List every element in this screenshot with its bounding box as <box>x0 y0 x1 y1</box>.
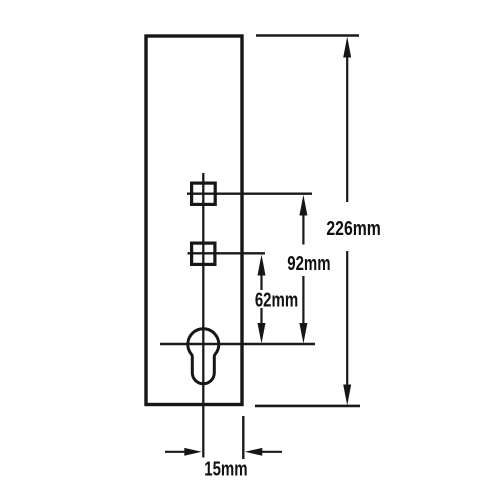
crosshair horizontal through square hole 1 / 92mm extension <box>187 193 312 195</box>
62mm dimension line upper shaft <box>260 268 262 290</box>
15mm right dimension shaft <box>259 451 282 453</box>
svg-text:92mm: 92mm <box>287 252 330 275</box>
15mm left arrowhead (pointing left) <box>245 448 262 456</box>
faceplate outline <box>146 36 242 405</box>
62mm up arrowhead <box>258 255 266 276</box>
92mm down arrowhead <box>299 323 307 344</box>
right extension line (15mm) <box>242 416 244 459</box>
226mm dimension line lower shaft <box>346 251 348 392</box>
92mm dimension line lower shaft <box>302 276 304 330</box>
crosshair horizontal through square hole 2 / 62mm extension <box>188 252 266 254</box>
62mm down arrowhead <box>258 323 266 344</box>
226mm dimension line upper shaft <box>346 50 348 202</box>
square hole 1 <box>192 183 216 204</box>
top extension line (226mm) <box>256 34 359 37</box>
centerline (vertical crosshair) <box>202 173 204 458</box>
15mm right arrowhead (pointing right) <box>184 448 202 456</box>
svg-text:15mm: 15mm <box>204 457 247 480</box>
92mm up arrowhead <box>299 195 307 216</box>
euro cylinder keyhole <box>188 329 219 384</box>
square hole 2 <box>192 243 215 264</box>
crosshair horizontal through keyhole / bottom extension for 62mm & 92mm <box>160 343 315 346</box>
62mm dimension line lower shaft <box>260 308 262 330</box>
226mm up arrowhead <box>343 37 351 58</box>
svg-text:226mm: 226mm <box>326 217 380 239</box>
bottom extension line (226mm) <box>255 405 360 408</box>
92mm dimension line upper shaft <box>302 208 304 245</box>
15mm left dimension shaft <box>165 451 188 453</box>
226mm down arrowhead <box>343 385 351 406</box>
svg-text:62mm: 62mm <box>255 288 298 311</box>
